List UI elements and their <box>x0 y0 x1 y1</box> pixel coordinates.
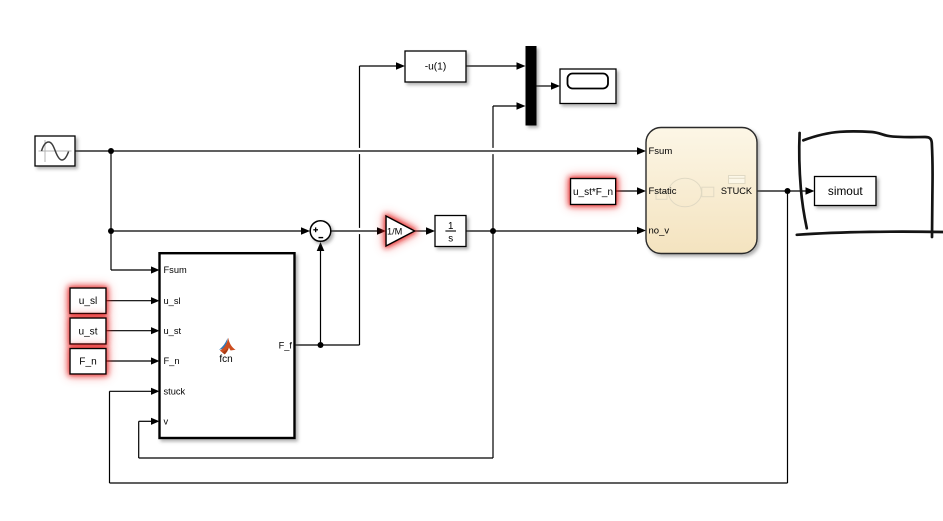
sine wave source <box>35 136 75 166</box>
svg-text:u_st*F_n: u_st*F_n <box>573 187 613 198</box>
wire sum to gain <box>331 227 386 235</box>
svg-text:u_st: u_st <box>164 326 182 336</box>
mux <box>526 46 537 126</box>
junction at 493,231 <box>490 228 496 234</box>
integrator fraction 1/s <box>445 221 456 244</box>
constant u_st <box>70 318 106 344</box>
svg-text:stuck: stuck <box>164 386 186 396</box>
constant u_sl <box>70 288 106 314</box>
wire stuck feedback from STUCK output <box>110 187 815 483</box>
fn block port labels <box>164 265 293 426</box>
wire down from junction to sum and Fsum port <box>111 151 310 274</box>
wire u_st*F_n to Fstatic <box>616 187 646 195</box>
MATLAB logo <box>219 338 236 355</box>
svg-text:STUCK: STUCK <box>721 186 753 196</box>
MATLAB function block <box>160 253 295 438</box>
scope <box>560 69 616 104</box>
svg-text:F_n: F_n <box>79 357 96 368</box>
junction at 111,231 <box>108 228 114 234</box>
wire u_st to port <box>106 327 160 334</box>
junction at 320.5,345 <box>318 342 324 348</box>
svg-text:no_v: no_v <box>649 225 670 236</box>
svg-text:-u(1): -u(1) <box>425 62 447 73</box>
gain 1/M <box>386 216 415 246</box>
wire gain to integrator <box>415 227 435 235</box>
junction at 787.5,191 <box>785 188 791 194</box>
wire sine to Fsum <box>75 147 646 155</box>
svg-text:s: s <box>448 234 453 245</box>
fcn block -u(1) <box>405 51 466 82</box>
svg-text:simout: simout <box>828 184 863 198</box>
junction at 111,151 <box>108 148 114 154</box>
hand drawn annotation box <box>797 131 943 237</box>
to workspace simout <box>815 177 877 206</box>
sum signs <box>313 227 323 237</box>
svg-text:F_f: F_f <box>279 341 293 351</box>
chart STUCK subsystem <box>646 128 757 254</box>
wire F_f output to sum and to -u(1) <box>295 62 405 345</box>
svg-text:u_sl: u_sl <box>164 296 181 306</box>
svg-text:F_n: F_n <box>164 356 180 366</box>
constant F_n <box>70 349 106 375</box>
constant u_st*F_n <box>571 179 616 205</box>
wire mux to scope <box>537 82 561 90</box>
chart inner preview shapes <box>656 176 745 207</box>
wire u_sl to port <box>106 297 160 304</box>
integrator 1/s <box>435 216 466 247</box>
wire F_n to port <box>106 357 160 364</box>
svg-text:Fsum: Fsum <box>649 146 673 157</box>
wire -u(1) to mux <box>466 62 526 70</box>
svg-text:1/M: 1/M <box>387 227 402 237</box>
svg-text:u_sl: u_sl <box>79 296 98 307</box>
sum block <box>310 221 331 242</box>
svg-text:Fstatic: Fstatic <box>649 186 677 197</box>
chart port labels <box>649 146 753 237</box>
svg-text:fcn: fcn <box>219 354 232 365</box>
wire integrator to no_v <box>466 227 646 235</box>
wire v feedback from integrator output <box>139 102 526 458</box>
svg-text:u_st: u_st <box>78 326 97 337</box>
svg-text:Fsum: Fsum <box>164 265 187 275</box>
svg-text:v: v <box>164 416 169 426</box>
